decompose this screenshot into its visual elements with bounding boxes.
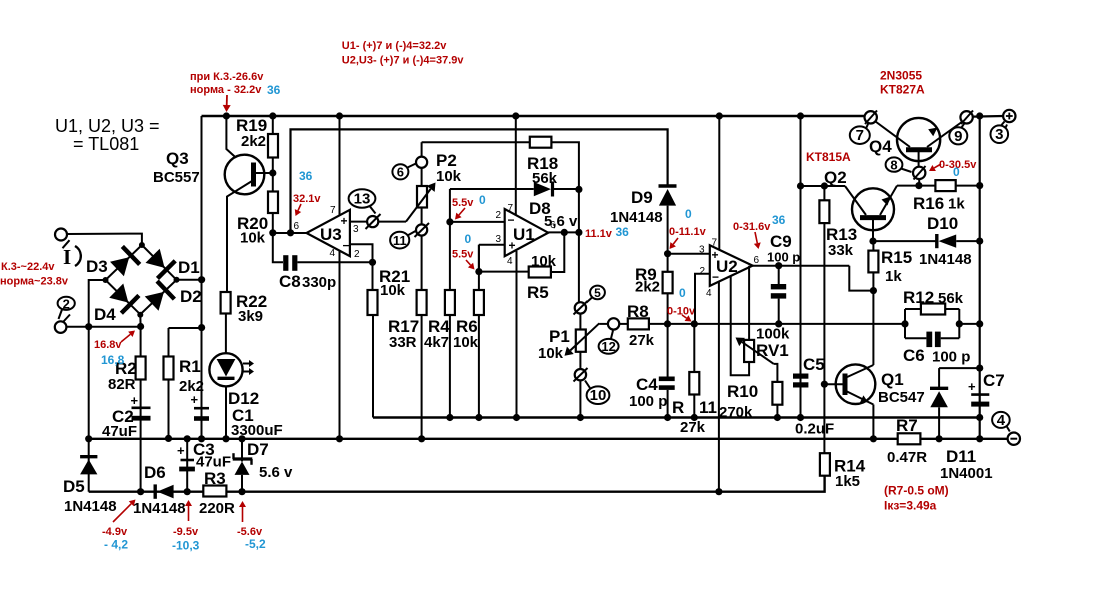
svg-text:13: 13 bbox=[354, 191, 371, 208]
svg-text:2k2: 2k2 bbox=[241, 133, 266, 150]
label red U1 supply bbox=[342, 40, 447, 52]
node U3 pin2 / R21 / C8 bbox=[369, 259, 376, 266]
label R18 bbox=[527, 154, 558, 173]
label red 2N3055 bbox=[880, 69, 922, 83]
wire P1 wiper to circle12 bbox=[599, 323, 608, 325]
svg-text:-10,3: -10,3 bbox=[172, 539, 200, 553]
arrow P2 wiper bbox=[406, 183, 436, 222]
resistor R10 bbox=[772, 382, 782, 405]
wire C5 column bbox=[800, 116, 802, 418]
svg-text:6: 6 bbox=[754, 255, 760, 266]
diode D4 bbox=[109, 284, 139, 314]
label R19 bbox=[236, 116, 267, 135]
svg-text:0: 0 bbox=[465, 232, 472, 246]
wire U2 pin7 lead bbox=[718, 116, 720, 250]
wire Q4 base lead bbox=[918, 150, 920, 167]
label C6 bbox=[903, 346, 925, 365]
wire second bus (U3 output feedback) bbox=[291, 129, 668, 232]
node R16 right rail bbox=[976, 182, 983, 189]
label U1 minus bbox=[508, 213, 515, 227]
resistor R17 bbox=[417, 290, 427, 315]
wire U2 out jog bbox=[849, 266, 873, 291]
svg-text:3: 3 bbox=[353, 224, 359, 235]
svg-text:10k: 10k bbox=[240, 230, 266, 247]
node C3 bottom bbox=[184, 488, 191, 495]
svg-text:10k: 10k bbox=[531, 253, 557, 270]
wire C8 left bbox=[273, 233, 283, 262]
svg-text:220R: 220R bbox=[199, 500, 235, 517]
transistor Q4 collector diag bbox=[876, 122, 911, 148]
svg-text:5,6 v: 5,6 v bbox=[544, 213, 578, 230]
label red Ikz bbox=[884, 499, 937, 513]
wire C4 to rail A bbox=[667, 390, 669, 418]
transistor Q1 emitter diag bbox=[845, 391, 873, 405]
svg-text:Q4: Q4 bbox=[869, 137, 892, 156]
svg-text:27k: 27k bbox=[680, 419, 706, 436]
label D10 bbox=[927, 214, 958, 233]
label C2 bbox=[112, 407, 134, 426]
svg-text:R12: R12 bbox=[903, 288, 934, 307]
label C1 bbox=[232, 406, 254, 425]
label red 5.5v lower bbox=[452, 249, 474, 261]
wire U3 pin7 lead bbox=[339, 116, 341, 215]
wire Q3 base lead bbox=[254, 172, 273, 174]
label red 11.1v bbox=[585, 228, 613, 240]
diode D5 bbox=[80, 457, 97, 475]
capacitor C1 bbox=[194, 408, 209, 421]
node R10 rail A bbox=[774, 414, 781, 421]
wire R6 column bbox=[478, 245, 480, 418]
label P1 bbox=[549, 327, 570, 346]
label R6 bbox=[456, 317, 478, 336]
label red -9.5v bbox=[173, 526, 199, 538]
label P2 value bbox=[436, 168, 462, 185]
svg-text:D10: D10 bbox=[927, 214, 958, 233]
wire R18 right bbox=[551, 142, 579, 232]
label U2 pin6 bbox=[754, 255, 760, 266]
op-amp U1 bbox=[505, 209, 549, 256]
svg-text:16.8v: 16.8v bbox=[94, 339, 122, 351]
label red -4.9v bbox=[102, 526, 128, 538]
node C2 lower-bus junction bbox=[137, 488, 144, 495]
svg-text:270k: 270k bbox=[719, 404, 753, 421]
wire P1 lower lead bbox=[579, 352, 581, 369]
node R12C6 right rail bbox=[976, 320, 983, 327]
diode D9 bbox=[659, 186, 677, 206]
label blue 0 R11 bbox=[679, 286, 686, 300]
label D10 type bbox=[919, 251, 972, 268]
wire R12 top branch bbox=[905, 308, 959, 310]
label circled 2 bbox=[58, 296, 75, 319]
svg-text:10: 10 bbox=[590, 387, 607, 404]
node D7 top bbox=[238, 435, 245, 442]
svg-text:47uF: 47uF bbox=[102, 423, 137, 440]
label R7 bbox=[896, 416, 918, 435]
wire Q2 emitter to node bbox=[897, 185, 919, 187]
label U2 pin4 bbox=[706, 288, 712, 299]
svg-text:C9: C9 bbox=[770, 232, 792, 251]
resistor R2 bbox=[136, 357, 146, 380]
label red norma 23.8 bbox=[0, 276, 69, 288]
resistor R19 bbox=[268, 134, 278, 158]
svg-text:56k: 56k bbox=[938, 290, 964, 307]
node left-rail/terminal2 junction bbox=[85, 323, 92, 330]
wire Q3 emitter bbox=[226, 116, 249, 170]
node R15 bottom bbox=[870, 287, 877, 294]
wire D8 cathode bbox=[554, 188, 579, 190]
arrow red 0-31.6 bbox=[754, 232, 761, 249]
wire U2 output bbox=[753, 265, 850, 267]
node U1 pin7 bus bbox=[512, 112, 519, 119]
svg-text:D5: D5 bbox=[63, 477, 85, 496]
svg-text:D7: D7 bbox=[247, 440, 269, 459]
label R1 bbox=[179, 357, 201, 376]
svg-text:6: 6 bbox=[397, 165, 404, 180]
svg-text:1N4148: 1N4148 bbox=[610, 209, 663, 226]
label C2 value bbox=[102, 423, 137, 440]
resistor R14 bbox=[820, 453, 830, 476]
label red 0-30.5v bbox=[939, 159, 977, 171]
svg-text:5.5v: 5.5v bbox=[452, 197, 474, 209]
label D4 bbox=[94, 305, 116, 324]
svg-text:U1: U1 bbox=[513, 225, 535, 244]
wire rail A (op-amp V- rail) bbox=[373, 416, 980, 418]
svg-text:D1: D1 bbox=[178, 258, 200, 277]
label R21 value bbox=[380, 282, 406, 299]
label Q1 type bbox=[878, 389, 925, 406]
arrow Q4 emitter bbox=[928, 128, 937, 137]
label C6 value bbox=[932, 349, 970, 366]
wire column x141 bbox=[140, 327, 142, 492]
wire R21 leads bbox=[372, 262, 374, 290]
label R19 value bbox=[241, 133, 266, 150]
label blue -4,2 bbox=[104, 538, 128, 552]
arrow red -9.5 bbox=[185, 500, 192, 521]
label R9 value bbox=[635, 279, 660, 296]
transistor Q3 circle bbox=[225, 155, 265, 195]
label C8 value bbox=[302, 274, 336, 291]
wire terminal1 to bridge top bbox=[67, 234, 142, 245]
svg-text:U2,U3- (+)7 и (-)4=37.9v: U2,U3- (+)7 и (-)4=37.9v bbox=[342, 55, 465, 67]
wire Q4 base to node bbox=[918, 179, 920, 186]
node D12 ground bbox=[222, 435, 229, 442]
label circled 3 bbox=[991, 125, 1009, 144]
LED D12 triangle bbox=[217, 359, 236, 377]
resistor R22 bbox=[221, 292, 231, 314]
node Q1 emitter ground bbox=[870, 435, 877, 442]
svg-text:KT827A: KT827A bbox=[880, 83, 925, 97]
label R8 value bbox=[629, 332, 655, 349]
resistor R9 bbox=[663, 272, 673, 294]
svg-text:R16: R16 bbox=[913, 194, 944, 213]
node C5 top bus bbox=[797, 112, 804, 119]
label R17 bbox=[388, 317, 419, 336]
label D9 bbox=[631, 188, 653, 207]
resistor R1 bbox=[164, 357, 174, 380]
arrow Q3 emitter (PNP) bbox=[237, 160, 245, 169]
node U1 pin3 node bbox=[475, 268, 482, 275]
wire P1 to rail A bbox=[579, 380, 581, 417]
svg-text:0-31.6v: 0-31.6v bbox=[733, 221, 771, 233]
label R10 bbox=[727, 382, 758, 401]
svg-text:7: 7 bbox=[856, 127, 864, 144]
resistor R16 bbox=[935, 180, 955, 191]
label U1 pin3 bbox=[496, 234, 502, 245]
label D8 value bbox=[544, 213, 578, 230]
node R4 rail A bbox=[446, 414, 453, 421]
connector circle 8 bbox=[913, 166, 926, 180]
svg-text:3300uF: 3300uF bbox=[231, 422, 283, 439]
node D7 bottom bbox=[238, 488, 245, 495]
svg-text:C4: C4 bbox=[636, 375, 658, 394]
svg-text:56k: 56k bbox=[532, 170, 558, 187]
connector circle 12 bbox=[608, 318, 619, 329]
svg-text:100 p: 100 p bbox=[932, 349, 970, 366]
label P1 value bbox=[538, 345, 564, 362]
svg-text:R1: R1 bbox=[179, 357, 201, 376]
node U3 out second-bus bbox=[287, 229, 294, 236]
resistor R7 bbox=[898, 433, 921, 444]
diode D6 bbox=[155, 484, 173, 498]
wire C9 leads bbox=[778, 266, 780, 324]
label R12 bbox=[903, 288, 934, 307]
svg-text:R7: R7 bbox=[896, 416, 918, 435]
node R20 bottom bbox=[269, 229, 276, 236]
svg-text:U3: U3 bbox=[320, 225, 342, 244]
wire Q1 emitter down bbox=[872, 405, 874, 439]
label C4 bbox=[636, 375, 658, 394]
svg-text:C5: C5 bbox=[803, 355, 825, 374]
wire right rail bbox=[979, 116, 981, 439]
connector circle 7 bbox=[865, 111, 878, 125]
label blue 36 top bbox=[267, 83, 281, 97]
arrow Q1 emitter bbox=[860, 395, 868, 403]
label U3 bbox=[320, 225, 342, 244]
label C3 value bbox=[196, 454, 231, 471]
node U3 pin7 bus bbox=[336, 112, 343, 119]
label RV1 bbox=[756, 341, 789, 360]
potentiometer P2 body bbox=[417, 186, 427, 208]
label U2 pin2 bbox=[700, 266, 706, 277]
label R11 value bbox=[680, 419, 706, 436]
wire rail B right of R7 bbox=[920, 438, 1007, 440]
label C7 bbox=[983, 371, 1005, 390]
node Q2 base bbox=[869, 238, 876, 245]
wire R22 to LED bbox=[225, 314, 227, 354]
wire lower bus (-V rail) bbox=[89, 476, 825, 492]
label U3 pin4 bbox=[330, 248, 336, 259]
svg-text:3k9: 3k9 bbox=[238, 308, 263, 325]
svg-text:36: 36 bbox=[616, 225, 630, 239]
label circled 8 bbox=[886, 157, 912, 172]
wire R10 to rail A bbox=[776, 405, 778, 418]
node C1 top junction bbox=[198, 324, 205, 331]
label red -5.6v bbox=[237, 526, 263, 538]
node U1 pin4 rail A bbox=[513, 414, 520, 421]
label R22 bbox=[236, 292, 267, 311]
svg-text:100k: 100k bbox=[756, 326, 790, 343]
svg-text:0.2uF: 0.2uF bbox=[795, 421, 834, 438]
wire U2 pin2 bbox=[695, 274, 710, 324]
wire R15 leads bbox=[872, 241, 874, 291]
node C9 bottom bbox=[775, 320, 782, 327]
LED D12 circle bbox=[209, 353, 242, 386]
wire bridge bottom stub bbox=[139, 314, 141, 326]
node C7 rail A end bbox=[976, 414, 983, 421]
wire bridge right output bbox=[177, 279, 202, 281]
diode D7 zener bbox=[233, 453, 253, 475]
label Q2 bbox=[824, 168, 847, 187]
label red KT827A bbox=[880, 83, 925, 97]
svg-text:1k5: 1k5 bbox=[835, 473, 860, 490]
wire U1 pin7 lead bbox=[515, 116, 517, 215]
label C7 plus bbox=[968, 379, 976, 394]
node D10 right rail bbox=[976, 238, 983, 245]
wire U1 pin2 bbox=[450, 221, 505, 223]
diode D10 bbox=[937, 234, 956, 248]
label C5 bbox=[803, 355, 825, 374]
node D8/R18 right bbox=[575, 186, 582, 193]
svg-text:2: 2 bbox=[354, 249, 360, 260]
wire C8 right bbox=[298, 261, 373, 263]
svg-text:1N4148: 1N4148 bbox=[919, 251, 972, 268]
wire left column x201 bbox=[201, 116, 203, 439]
label R7 value bbox=[887, 449, 927, 466]
resistor R15 bbox=[868, 251, 878, 273]
node R1 ground bbox=[165, 435, 172, 442]
svg-text:3: 3 bbox=[699, 245, 705, 256]
wire R1 column bbox=[168, 328, 170, 439]
svg-text:+: + bbox=[712, 248, 719, 262]
arrow red 0-30.5 bbox=[929, 164, 941, 171]
label red R7 note bbox=[884, 484, 949, 498]
label C9 value bbox=[767, 250, 800, 265]
wire D11 leads bbox=[938, 368, 940, 439]
arrow red to bus bbox=[223, 95, 231, 112]
wire U1 pin4 lead bbox=[516, 251, 518, 418]
resistor R21 bbox=[368, 290, 378, 315]
svg-text:−: − bbox=[508, 213, 515, 227]
svg-text:при К.3.-26.6v: при К.3.-26.6v bbox=[190, 71, 264, 83]
wire RV1 top to U2 out bbox=[748, 266, 750, 340]
label blue 16,8 bbox=[101, 353, 125, 367]
transistor Q1 circle bbox=[836, 364, 876, 404]
node R6 rail A bbox=[475, 414, 482, 421]
wire U3 output bbox=[273, 232, 307, 234]
svg-text:4: 4 bbox=[330, 248, 336, 259]
wire D7 leads bbox=[241, 439, 243, 492]
svg-text:D4: D4 bbox=[94, 305, 116, 324]
svg-text:11: 11 bbox=[393, 233, 407, 248]
wire R19 leads bbox=[272, 116, 274, 192]
svg-text:D9: D9 bbox=[631, 188, 653, 207]
node U1 output bbox=[575, 229, 582, 236]
wire top bus (+V rail) bbox=[202, 115, 873, 118]
wire U2 pin3 bbox=[668, 253, 710, 255]
node D11 ground bbox=[936, 435, 943, 442]
svg-text:4k7: 4k7 bbox=[424, 334, 449, 351]
svg-text:27k: 27k bbox=[629, 332, 655, 349]
transistor Q4 base bar bbox=[906, 147, 932, 152]
svg-text:R: R bbox=[672, 398, 684, 417]
terminal 2 bbox=[55, 315, 70, 333]
node C4 rail A bbox=[664, 414, 671, 421]
node R13 top bbox=[821, 182, 828, 189]
label D6 type bbox=[133, 500, 186, 517]
svg-text:0-10v: 0-10v bbox=[667, 306, 696, 318]
node C3 top bbox=[184, 435, 191, 442]
label D7 bbox=[247, 440, 269, 459]
node D9/R9/U2pin3 bbox=[664, 250, 671, 257]
label U3 pin6 bbox=[294, 221, 300, 232]
potentiometer RV1 body bbox=[744, 340, 754, 362]
label R3 value bbox=[199, 500, 235, 517]
svg-text:Q2: Q2 bbox=[824, 168, 847, 187]
svg-text:10k: 10k bbox=[380, 282, 406, 299]
wire jog to R1 bbox=[169, 327, 202, 329]
label C4 value bbox=[629, 393, 667, 410]
label U3 plus bbox=[341, 214, 348, 228]
label red K3 short bbox=[190, 71, 264, 83]
label U3 pin3 bbox=[353, 224, 359, 235]
wire D11 branch bbox=[939, 367, 980, 369]
wire R20 bottom lead bbox=[272, 213, 274, 232]
label blue -10,3 bbox=[172, 539, 200, 553]
label R2 value bbox=[108, 376, 136, 393]
svg-text:4: 4 bbox=[997, 412, 1006, 429]
label R11 R bbox=[672, 398, 684, 417]
resistor R3 bbox=[203, 486, 226, 497]
svg-text:+: + bbox=[177, 443, 185, 458]
resistor R4 bbox=[445, 290, 455, 315]
svg-text:+: + bbox=[968, 379, 976, 394]
label R5 bbox=[527, 283, 549, 302]
svg-text:1N4001: 1N4001 bbox=[940, 465, 993, 482]
node Q1 base bbox=[821, 381, 828, 388]
capacitor C9 bbox=[771, 284, 786, 299]
label R14 value bbox=[835, 473, 860, 490]
label U2 minus bbox=[712, 270, 719, 284]
label D8 bbox=[529, 199, 551, 218]
label U1U2U3 bbox=[55, 116, 160, 136]
label C1 value bbox=[231, 422, 283, 439]
capacitor C5 bbox=[793, 374, 808, 388]
wire Q1 collector bbox=[872, 291, 874, 365]
svg-text:4: 4 bbox=[706, 288, 712, 299]
wire U3 pin3 to P2 wiper bbox=[350, 221, 406, 223]
wire Q3 collector bbox=[227, 181, 252, 292]
label R4 bbox=[428, 317, 450, 336]
node R12C6 mid right bbox=[956, 320, 963, 327]
capacitor C7 bbox=[971, 395, 989, 407]
arrow Q2 emitter bbox=[882, 197, 891, 206]
svg-text:9: 9 bbox=[954, 128, 962, 145]
arrow red 32.1 bbox=[295, 204, 301, 216]
arrow red -4.9 bbox=[113, 500, 136, 523]
transistor Q1 base bar bbox=[843, 374, 848, 396]
wire P2 feed to R18 bbox=[422, 141, 530, 143]
label R20 bbox=[237, 214, 268, 233]
svg-text:2k2: 2k2 bbox=[635, 279, 660, 296]
label circled 12 bbox=[599, 331, 619, 355]
svg-text:норма~23.8v: норма~23.8v bbox=[0, 276, 69, 288]
label blue 36 U1 bbox=[616, 225, 630, 239]
op-amp U3 bbox=[307, 210, 350, 256]
label U3 minus bbox=[343, 239, 350, 253]
node U3 pin4 ground bbox=[336, 435, 343, 442]
transistor Q4 emitter diag bbox=[927, 122, 963, 148]
label red 5.5v upper bbox=[452, 197, 474, 209]
